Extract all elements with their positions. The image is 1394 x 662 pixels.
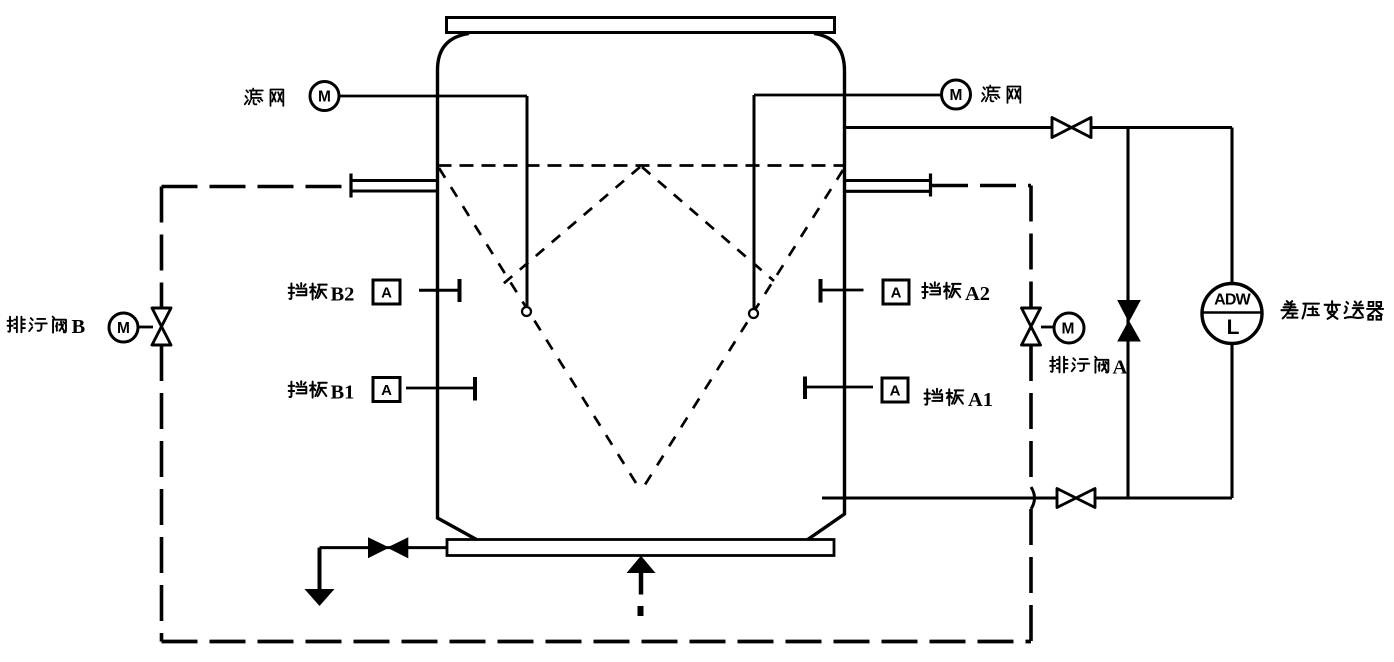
svg-text:A2: A2 <box>965 283 990 305</box>
instrument circle M right (滤网) <box>942 80 971 109</box>
vessel top lid flange <box>447 18 835 33</box>
svg-text:A: A <box>891 285 902 302</box>
instrument circle M (排污阀A) <box>1054 313 1084 343</box>
label 排污阀B <box>8 317 66 333</box>
inlet arrow bottom center <box>639 572 644 595</box>
wire: right vertical to transmitter <box>1230 128 1233 285</box>
dashed enclosure top-right segment <box>932 184 1031 188</box>
node circle right cone tip <box>749 309 758 318</box>
dashed enclosure left edge <box>160 187 164 309</box>
dashed enclosure top-left segment <box>162 185 349 189</box>
svg-text:B1: B1 <box>331 382 355 404</box>
drain valve (filled bowtie horizontal) <box>369 538 408 558</box>
dashed enclosure right edge <box>1029 186 1033 309</box>
svg-text:M: M <box>1062 321 1075 338</box>
internal dashed V right <box>641 170 843 491</box>
dashed edge hop over pipe <box>1031 487 1035 509</box>
tag box A (A2) <box>883 280 909 304</box>
baffle A1 line <box>805 386 873 389</box>
vessel shell outline <box>438 34 482 543</box>
valve V2 bottom (hollow bowtie) <box>1057 489 1095 508</box>
wire: vertical branch with blocking valve <box>1126 128 1129 499</box>
label 排污阀A <box>1050 357 1108 373</box>
wire: right pipe to right M circle <box>754 94 942 97</box>
valve 排污阀A (hollow bowtie vertical) <box>1022 308 1041 345</box>
vessel bottom plate flange <box>447 540 834 556</box>
right nozzle flange <box>845 179 931 182</box>
label 滤网 right <box>982 86 1021 103</box>
wire: bottom impulse pipe <box>822 496 1232 499</box>
wire: valve A to M <box>1041 326 1054 329</box>
svg-text:A: A <box>381 382 392 399</box>
svg-text:A: A <box>890 383 901 400</box>
internal dashed cone right <box>642 167 774 281</box>
valve 排污阀B (hollow bowtie vertical) <box>152 308 171 345</box>
label 挡板B1 <box>289 381 327 397</box>
baffle A2 line <box>821 289 864 292</box>
wire: left M circle to left pipe <box>339 95 527 98</box>
label 差压变送器 <box>1281 301 1383 320</box>
instrument circle M left (滤网) <box>310 82 339 111</box>
transmitter circle U1 <box>1202 284 1262 344</box>
filter element pipe left <box>526 96 529 306</box>
svg-text:B2: B2 <box>331 284 355 306</box>
internal liquid level dashed line <box>438 164 845 167</box>
valve V3 (filled bowtie vertical) <box>1118 301 1140 342</box>
svg-text:A: A <box>381 285 392 302</box>
valve V1 top (hollow bowtie) <box>1052 118 1091 138</box>
filter element pipe right <box>753 95 756 308</box>
internal dashed cone left <box>503 167 640 284</box>
wire: M to valve B <box>138 326 153 329</box>
svg-text:A: A <box>1113 357 1128 379</box>
baffle B2 line <box>419 289 460 292</box>
baffle B1 line <box>406 387 475 390</box>
svg-text:B: B <box>72 316 86 338</box>
wire: top impulse pipe <box>845 126 1233 129</box>
label 挡板B2 <box>289 283 327 299</box>
label 挡板A1 <box>924 389 963 405</box>
svg-text:M: M <box>318 89 331 106</box>
drain outlet arrow <box>318 548 322 589</box>
svg-text:M: M <box>117 320 130 337</box>
label 滤网 left <box>245 89 283 106</box>
node circle left cone tip <box>522 307 531 316</box>
svg-text:M: M <box>950 87 963 104</box>
svg-text:A1: A1 <box>968 389 993 411</box>
instrument circle M (排污阀B) <box>109 313 138 342</box>
svg-text:ADW: ADW <box>1214 292 1252 309</box>
internal dashed V left <box>439 168 641 491</box>
drain line bottom left <box>320 546 448 549</box>
tag box A (A1) <box>882 378 908 402</box>
label 挡板A2 <box>922 282 960 298</box>
tag box A (B2) <box>373 280 400 304</box>
tag box A (B1) <box>373 378 400 402</box>
inlet tick mark <box>638 606 644 616</box>
dashed enclosure bottom edge <box>162 640 1032 644</box>
left nozzle flange <box>351 179 438 182</box>
svg-text:L: L <box>1227 316 1240 339</box>
